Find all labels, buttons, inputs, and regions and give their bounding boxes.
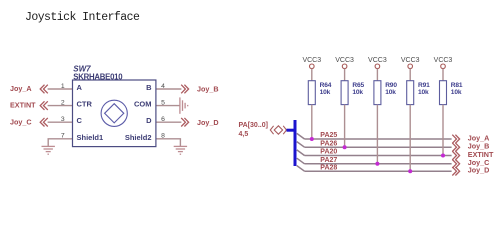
svg-text:3: 3: [61, 116, 65, 123]
svg-text:10k: 10k: [385, 89, 396, 96]
svg-text:CTR: CTR: [77, 100, 93, 109]
svg-text:4: 4: [161, 83, 165, 90]
svg-text:7: 7: [61, 133, 65, 140]
svg-text:C: C: [77, 116, 83, 125]
svg-text:Shield2: Shield2: [125, 133, 152, 142]
svg-text:10k: 10k: [451, 89, 462, 96]
svg-text:1: 1: [61, 83, 65, 90]
svg-text:B: B: [146, 83, 152, 92]
svg-text:5: 5: [161, 99, 165, 106]
svg-text:10k: 10k: [352, 89, 363, 96]
svg-text:VCC3: VCC3: [434, 57, 453, 64]
svg-text:PA20: PA20: [320, 149, 337, 156]
svg-text:Joy_D: Joy_D: [197, 118, 219, 127]
svg-text:PA27: PA27: [320, 157, 337, 164]
svg-text:Joy_C: Joy_C: [10, 117, 32, 126]
svg-text:SKRHABE010: SKRHABE010: [73, 72, 123, 81]
svg-text:VCC3: VCC3: [302, 57, 321, 64]
svg-text:10k: 10k: [320, 89, 331, 96]
svg-text:EXTINT: EXTINT: [10, 101, 36, 110]
svg-text:D: D: [146, 116, 152, 125]
svg-text:Joy_D: Joy_D: [468, 166, 490, 175]
svg-text:PA28: PA28: [320, 164, 337, 171]
svg-text:8: 8: [161, 133, 165, 140]
svg-text:Joystick Interface: Joystick Interface: [25, 11, 140, 24]
svg-text:Shield1: Shield1: [77, 133, 104, 142]
svg-text:VCC3: VCC3: [401, 57, 420, 64]
svg-text:Joy_A: Joy_A: [10, 84, 32, 93]
svg-text:VCC3: VCC3: [368, 57, 387, 64]
svg-text:2: 2: [61, 99, 65, 106]
svg-text:VCC3: VCC3: [335, 57, 354, 64]
svg-text:PA26: PA26: [320, 140, 337, 147]
svg-text:COM: COM: [134, 100, 152, 109]
svg-text:4,5: 4,5: [239, 131, 249, 138]
svg-text:Joy_B: Joy_B: [197, 85, 219, 94]
svg-text:6: 6: [161, 116, 165, 123]
svg-text:A: A: [77, 83, 83, 92]
svg-text:PA[30..0]: PA[30..0]: [239, 122, 268, 129]
svg-text:10k: 10k: [418, 89, 429, 96]
svg-text:PA25: PA25: [320, 132, 337, 139]
